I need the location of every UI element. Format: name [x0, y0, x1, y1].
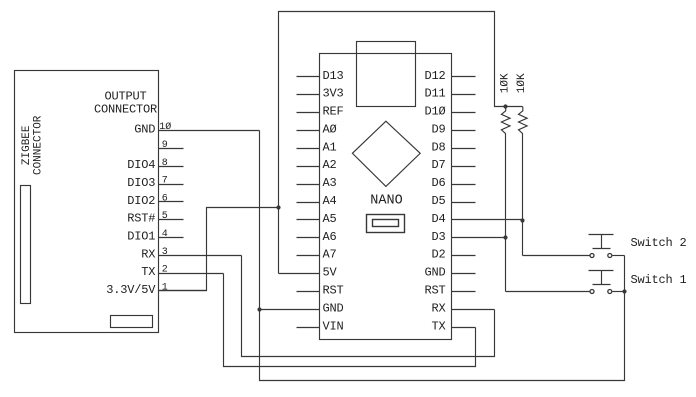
switch Switch 2 left terminal [590, 254, 594, 258]
switch Switch 2 button cap bar [589, 234, 614, 236]
switch Switch 1 left terminal [590, 290, 594, 294]
svg-text:3: 3 [162, 247, 168, 258]
pin 9 stub [159, 148, 184, 150]
svg-text:D1Ø: D1Ø [424, 105, 445, 119]
svg-text:D8: D8 [431, 140, 445, 154]
U1 left pin 5V stub [279, 273, 320, 275]
U1 right pin D9 stub [452, 130, 476, 132]
svg-text:A1: A1 [323, 140, 337, 154]
U1 left pin A4 stub [297, 202, 320, 204]
svg-text:DIO3: DIO3 [127, 176, 155, 190]
svg-text:3V3: 3V3 [323, 87, 344, 101]
U1 ISP header outer [367, 215, 405, 233]
U1 right pin D8 stub [452, 148, 476, 150]
switch Switch 2 contact bar [593, 248, 611, 250]
U1 left pin A2 stub [297, 166, 320, 168]
svg-text:D3: D3 [431, 230, 445, 244]
junction resistor tops [503, 104, 507, 108]
switch Switch 1 right terminal [608, 290, 612, 294]
svg-text:AØ: AØ [323, 123, 337, 137]
junction GND net / switch1 terminal [622, 289, 626, 293]
U1 right pin GND stub [452, 273, 476, 275]
U1 right pin D3 stub [452, 237, 506, 239]
U1 left pin 3V3 stub [297, 94, 320, 96]
svg-text:RX: RX [141, 247, 155, 261]
junction R2 / D4 net [520, 218, 524, 222]
svg-text:TX: TX [141, 265, 155, 279]
U1 left pin REF stub [297, 112, 320, 114]
junction GND net / U1 GND pin [257, 307, 261, 311]
pin 3 stub [159, 255, 242, 257]
svg-text:DIO2: DIO2 [127, 194, 155, 208]
svg-text:1ØK: 1ØK [500, 73, 512, 93]
U1 right pin D1Ø stub [452, 112, 476, 114]
U1 ISP header inner [373, 220, 399, 227]
pin 5 stub [159, 219, 184, 221]
svg-text:RST: RST [323, 284, 344, 298]
pin 6 stub [159, 201, 184, 203]
svg-text:A7: A7 [323, 248, 337, 262]
U1 left pin RST stub [297, 291, 320, 293]
svg-text:CONNECTOR: CONNECTOR [94, 103, 157, 117]
svg-text:1: 1 [162, 283, 168, 294]
svg-text:1Ø: 1Ø [159, 121, 171, 133]
wire Switch 2 right terminal to GND vertical [613, 255, 625, 257]
svg-text:A3: A3 [323, 176, 337, 190]
svg-text:NANO: NANO [370, 194, 402, 209]
svg-text:D6: D6 [431, 176, 445, 190]
junction R1 / D3 net [503, 235, 507, 239]
pin 2 stub [159, 273, 224, 275]
U1 right pin D7 stub [452, 166, 476, 168]
U1 left pin A1 stub [297, 148, 320, 150]
svg-text:D5: D5 [431, 194, 445, 208]
svg-text:A4: A4 [323, 194, 337, 208]
pin 1 stub [159, 290, 207, 292]
svg-text:D9: D9 [431, 123, 445, 137]
svg-text:D2: D2 [431, 248, 445, 262]
U1 right pin D2 stub [452, 255, 476, 257]
U1 logo diamond [352, 121, 420, 186]
pin 4 stub [159, 237, 184, 239]
svg-text:D7: D7 [431, 158, 445, 172]
svg-text:9: 9 [162, 140, 168, 151]
svg-text:1ØK: 1ØK [516, 73, 528, 93]
svg-text:3.3V/5V: 3.3V/5V [106, 283, 156, 297]
resistor R1 10K [501, 107, 510, 134]
switch Switch 2 right terminal [608, 254, 612, 258]
svg-text:D12: D12 [424, 69, 445, 83]
svg-text:7: 7 [162, 176, 168, 187]
U1 left pin VIN stub [297, 327, 320, 329]
U1 right pin D11 stub [452, 94, 476, 96]
svg-text:RST#: RST# [127, 212, 155, 226]
wire 5V net: U1 5V pin up over top to resistors [279, 12, 523, 274]
U1 USB connector [357, 42, 416, 107]
svg-text:5V: 5V [323, 266, 338, 280]
wire RX net: pin3 to U1 RX [242, 256, 495, 357]
connector J1 keying tab [111, 316, 153, 328]
svg-text:DIO1: DIO1 [127, 230, 155, 244]
svg-text:CONNECTOR: CONNECTOR [33, 115, 45, 175]
svg-text:8: 8 [162, 158, 168, 169]
svg-text:ZIGBEE: ZIGBEE [21, 125, 33, 165]
svg-text:2: 2 [162, 265, 168, 276]
svg-text:RST: RST [424, 284, 445, 298]
U1 left pin A5 stub [297, 219, 320, 221]
svg-text:5: 5 [162, 211, 168, 222]
svg-text:GND: GND [134, 123, 155, 137]
pin 8 stub [159, 166, 184, 168]
wire TX net: pin2 to U1 TX [224, 274, 476, 367]
U1 right pin D4 stub [452, 219, 523, 221]
U1 right pin D5 stub [452, 202, 476, 204]
switch Switch 1 contact bar [593, 284, 611, 286]
svg-text:GND: GND [323, 301, 344, 315]
U1 right pin TX stub [452, 327, 476, 329]
U1 left pin GND stub [260, 309, 320, 311]
U1 left pin A6 stub [297, 237, 320, 239]
connector J1 body slot [21, 186, 31, 304]
wire R2 bottom down to switch2 row [522, 134, 524, 256]
svg-text:Switch 1: Switch 1 [631, 273, 687, 287]
svg-text:A2: A2 [323, 158, 337, 172]
Arduino Nano U1 outline [320, 54, 452, 340]
U1 right pin RST stub [452, 291, 476, 293]
resistor R2 10K [519, 107, 528, 134]
svg-text:DIO4: DIO4 [127, 158, 155, 172]
pin 7 stub [159, 184, 184, 186]
svg-text:4: 4 [162, 229, 168, 240]
U1 right pin D12 stub [452, 76, 476, 78]
svg-text:6: 6 [162, 193, 168, 204]
switch Switch 1 button cap bar [589, 270, 614, 272]
svg-text:VIN: VIN [323, 319, 344, 333]
U1 right pin RX stub [452, 309, 495, 311]
svg-text:OUTPUT: OUTPUT [104, 89, 146, 103]
svg-text:Switch 2: Switch 2 [631, 236, 687, 250]
svg-text:D4: D4 [431, 212, 445, 226]
wire R1 bottom down to switch1 row [505, 134, 507, 292]
wire to switch1 left terminal [506, 291, 590, 293]
wire 3.3V/5V pin1 to 5V net [159, 208, 279, 291]
svg-text:D13: D13 [323, 69, 344, 83]
svg-text:TX: TX [431, 319, 445, 333]
svg-text:D11: D11 [424, 87, 445, 101]
U1 right pin D6 stub [452, 184, 476, 186]
wire GND net: pin10 down, bottom run, up to switches [260, 131, 625, 381]
U1 left pin AØ stub [297, 130, 320, 132]
switch Switch 1 plunger stem [601, 271, 603, 285]
U1 left pin A3 stub [297, 184, 320, 186]
connector J1 ZIGBEE box outline [15, 71, 159, 333]
U1 left pin A7 stub [297, 255, 320, 257]
pin 1Ø stub [159, 130, 260, 132]
svg-text:REF: REF [323, 105, 344, 119]
U1 left pin D13 stub [297, 76, 320, 78]
svg-text:A5: A5 [323, 212, 337, 226]
svg-text:A6: A6 [323, 230, 337, 244]
switch Switch 2 plunger stem [601, 235, 603, 249]
junction 5V net / connector pin1 wire [276, 205, 280, 209]
svg-text:RX: RX [431, 301, 445, 315]
svg-text:GND: GND [424, 266, 445, 280]
wire to switch2 left terminal [523, 255, 590, 257]
wire Switch 1 right terminal to GND vertical [613, 291, 625, 293]
